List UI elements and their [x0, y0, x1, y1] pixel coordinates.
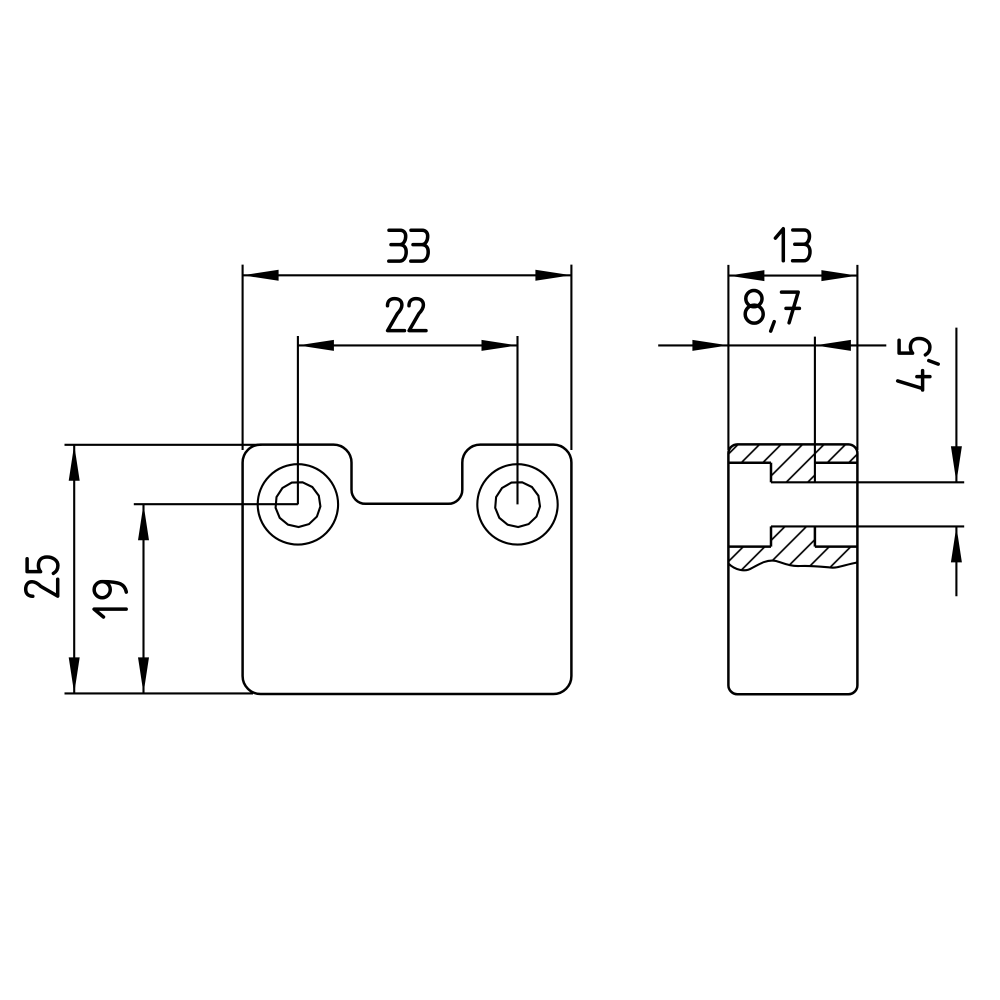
front view plate outline — [243, 445, 572, 694]
dimension 33 line — [243, 274, 572, 276]
right hole counterbore circle — [477, 464, 557, 544]
left counterbore wall upper segment — [770, 463, 773, 483]
dimension 22 arrow right — [482, 340, 518, 351]
left counterbore bottom edge — [728, 545, 771, 548]
dimension 19 arrow top — [138, 504, 149, 540]
dimension 8,7 arrow right (outside, pointing left) — [815, 340, 851, 351]
dimension 4,5 arrow bottom (pointing up) — [951, 526, 962, 562]
dimension 25 line — [73, 445, 75, 694]
dimension 19 text (rotated) — [94, 582, 126, 617]
dimension 25 extension line top — [65, 444, 262, 446]
hole bottom edge with extension — [771, 525, 964, 527]
dimension 4,5 text (rotated) — [898, 339, 939, 391]
dimension 22 extension line right to hole center — [516, 336, 518, 504]
dimension 25 arrow bottom — [69, 657, 80, 693]
left counterbore top edge — [728, 461, 771, 464]
dimension 4,5 line upper segment — [955, 328, 957, 483]
dimension 4,5 arrow top (pointing down) — [951, 446, 962, 482]
dimension 25 text (rotated) — [26, 557, 58, 596]
dimension 19 arrow bottom — [138, 657, 149, 693]
dimension 22 line — [298, 344, 518, 346]
right counterbore shoulder lower segment — [814, 526, 817, 546]
section break wavy line — [728, 561, 857, 571]
side view outline — [728, 444, 857, 694]
dimension 13 extension line right — [856, 265, 858, 450]
dimension 8,7 arrow left (outside, pointing right) — [692, 340, 728, 351]
right counterbore top edge — [815, 461, 858, 464]
dimension 33 extension line right — [570, 265, 572, 450]
dimension 13 extension line left — [727, 265, 729, 450]
dimension 8,7 extension line right — [814, 337, 816, 483]
dimension 33 arrow left — [243, 270, 279, 281]
left counterbore wall lower segment — [770, 526, 773, 546]
hole top edge with extension — [771, 481, 964, 483]
dimension 13 line — [728, 275, 857, 277]
dimension 19 extension line to hole center — [134, 503, 298, 505]
dimension 8,7 text — [745, 290, 799, 331]
dimension 19 line — [142, 504, 144, 693]
section hatch fill — [728, 444, 857, 570]
dimension 22 arrow left — [298, 340, 334, 351]
dimension 22 extension line left to hole center — [297, 336, 299, 504]
dimension 33 text — [389, 230, 428, 261]
dimension 13 text — [775, 229, 810, 261]
dimension 25 arrow top — [69, 445, 80, 481]
right counterbore bottom edge — [815, 545, 858, 548]
dimension 25 extension line bottom — [65, 692, 254, 694]
dimension 33 arrow right — [535, 270, 571, 281]
dimension 13 arrow left — [728, 270, 764, 281]
dimension 22 text — [388, 299, 427, 331]
dimension 33 extension line left — [242, 265, 244, 450]
dimension 13 arrow right — [821, 270, 857, 281]
dimension 4,5 line lower segment — [955, 526, 957, 596]
left hole counterbore circle — [258, 464, 338, 544]
dimension 8,7 line — [658, 344, 886, 346]
left hole inner polygon — [276, 482, 321, 527]
right hole inner polygon — [495, 482, 540, 527]
